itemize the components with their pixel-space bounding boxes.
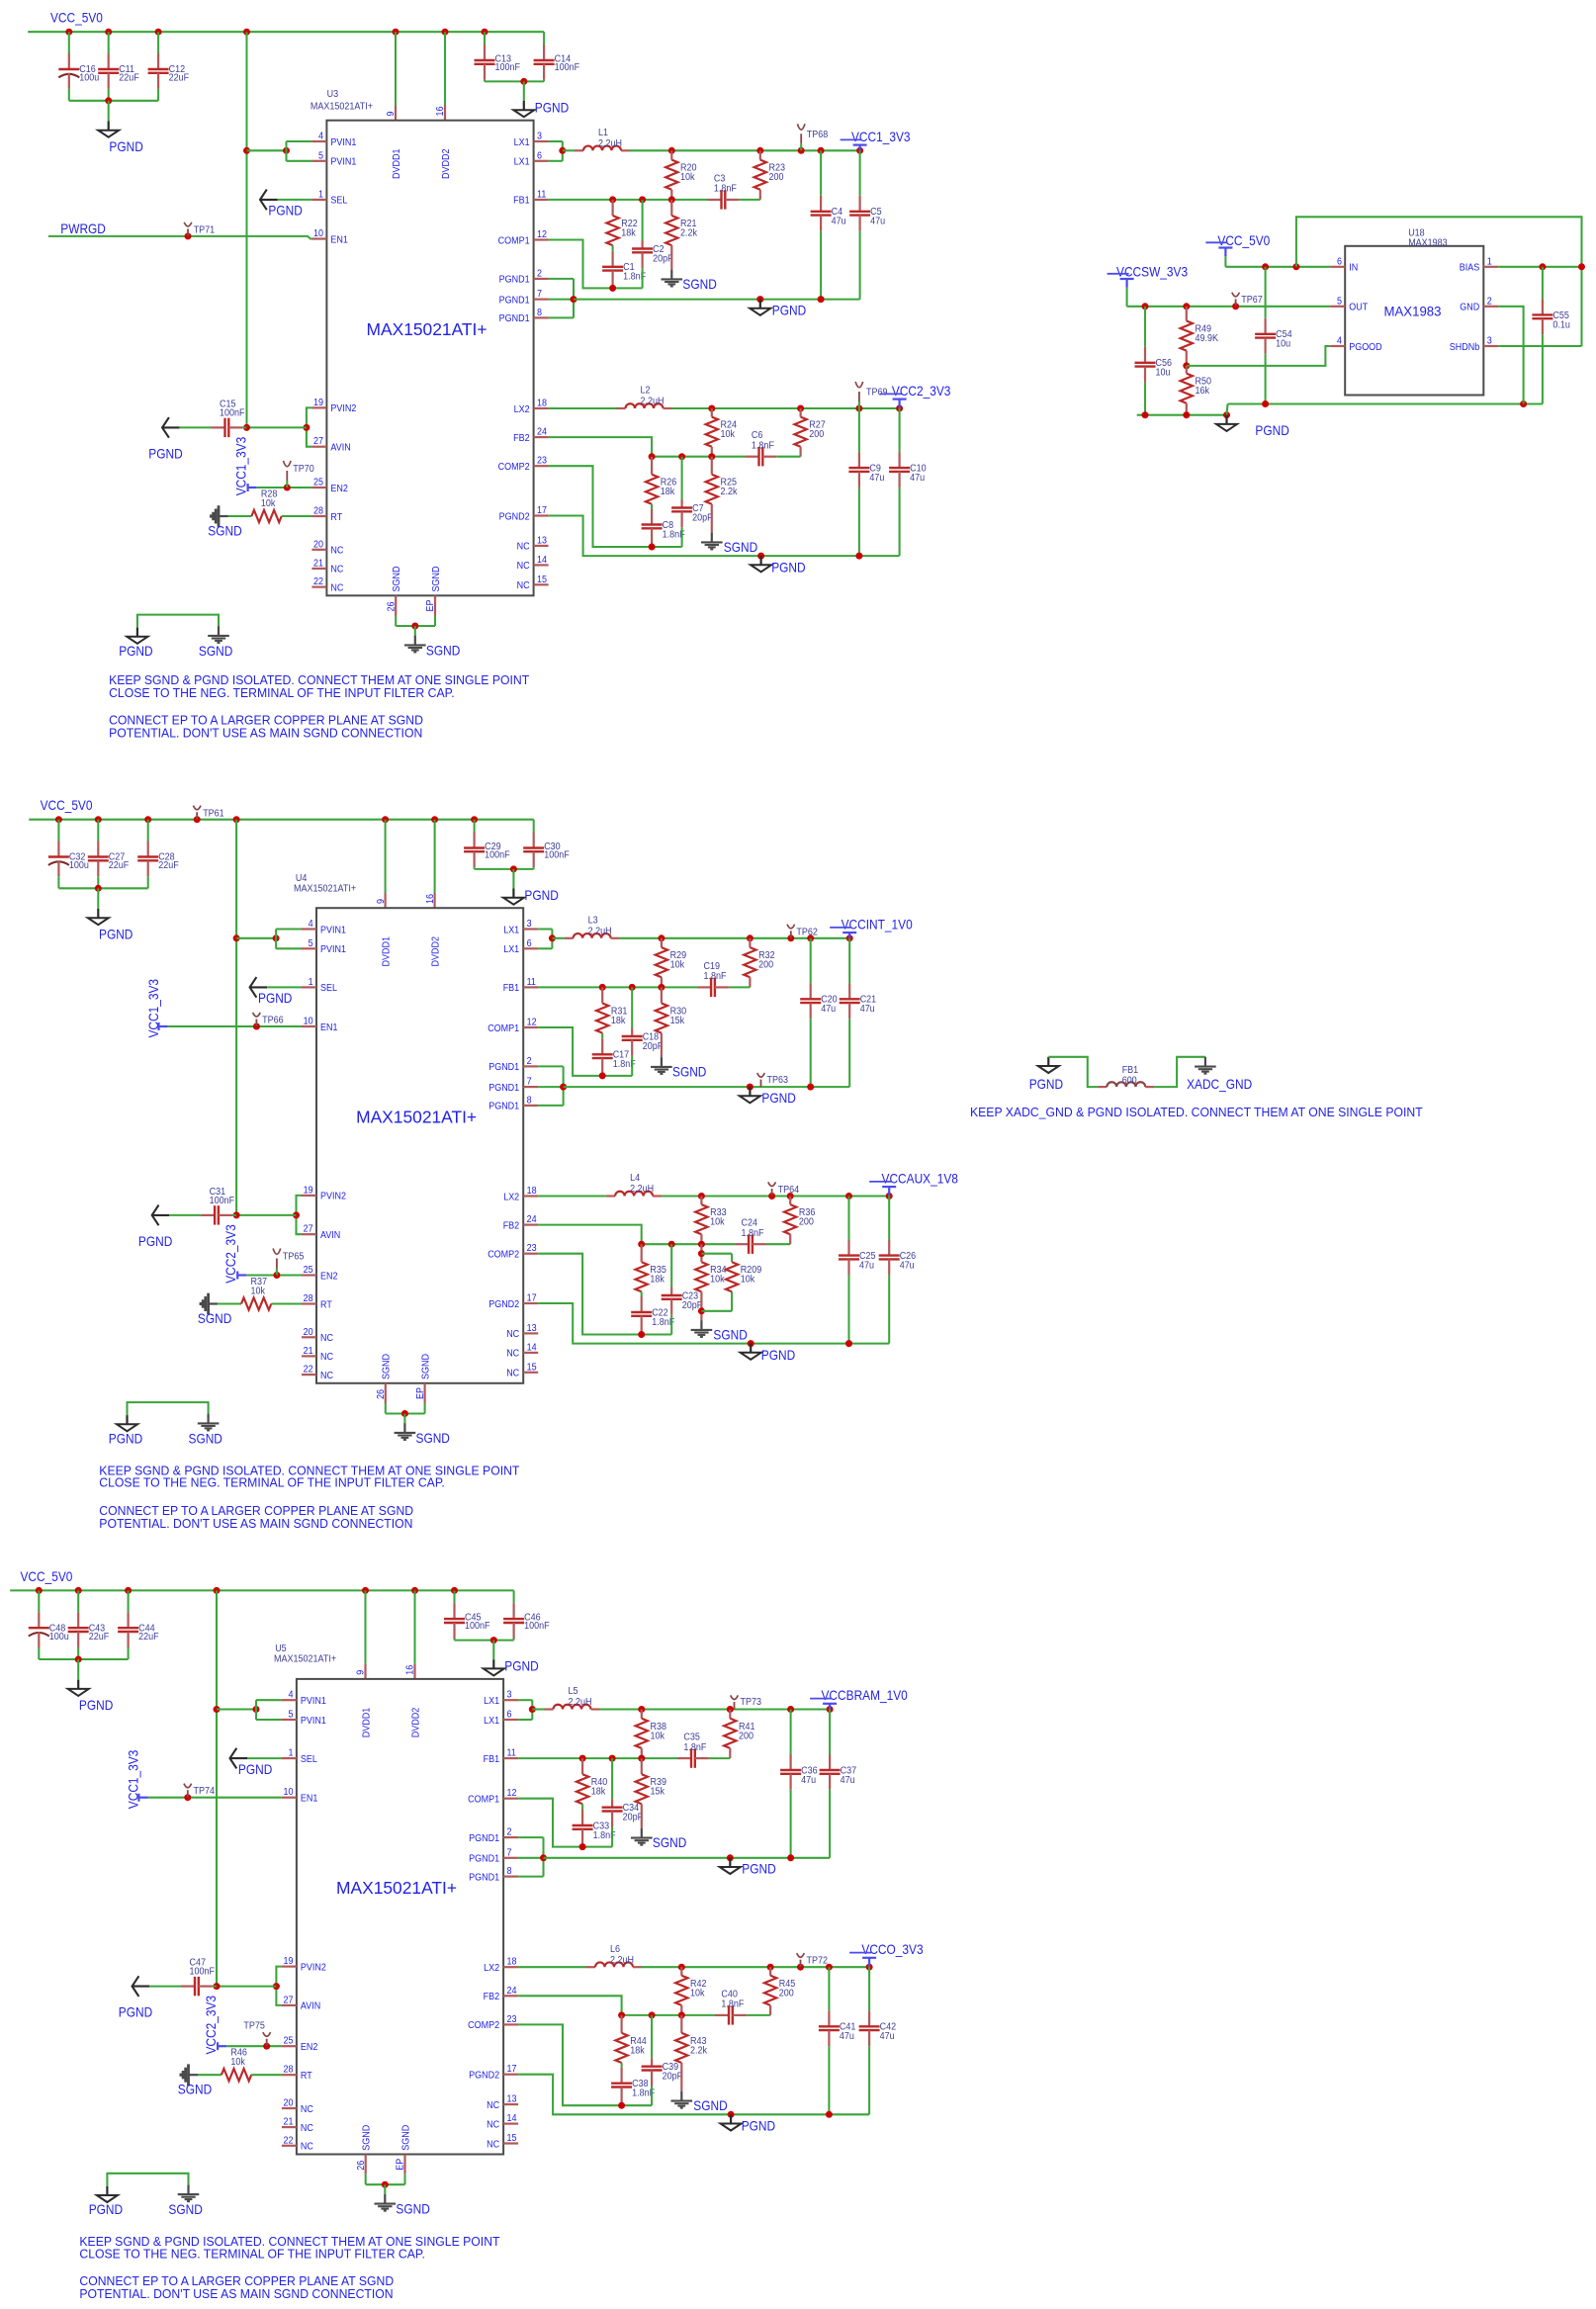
- svg-text:SGND: SGND: [682, 276, 716, 292]
- svg-text:SEL: SEL: [330, 196, 347, 207]
- svg-text:1.8nF: 1.8nF: [752, 441, 774, 452]
- svg-text:PGND: PGND: [268, 203, 302, 219]
- svg-text:16: 16: [435, 106, 446, 116]
- svg-text:NC: NC: [487, 2119, 499, 2130]
- svg-text:VCC2_3V3: VCC2_3V3: [892, 383, 951, 399]
- svg-text:20: 20: [304, 1327, 313, 1338]
- svg-text:20: 20: [284, 2098, 294, 2109]
- svg-text:SGND: SGND: [396, 2201, 429, 2217]
- svg-text:10k: 10k: [741, 1275, 755, 1286]
- svg-text:PGND: PGND: [742, 1861, 775, 1877]
- svg-text:L2: L2: [641, 386, 651, 397]
- svg-text:24: 24: [537, 427, 547, 438]
- svg-text:DVDD2: DVDD2: [430, 936, 441, 967]
- svg-text:20pF: 20pF: [643, 1041, 664, 1052]
- svg-text:1.8nF: 1.8nF: [714, 184, 737, 195]
- svg-text:VCC_5V0: VCC_5V0: [41, 797, 93, 813]
- svg-text:MAX15021ATI+: MAX15021ATI+: [274, 1653, 336, 1664]
- svg-text:25: 25: [313, 478, 323, 488]
- svg-text:SGND: SGND: [208, 523, 241, 539]
- svg-text:17: 17: [507, 2064, 517, 2075]
- svg-text:PGND: PGND: [79, 1697, 113, 1713]
- svg-text:PGND1: PGND1: [469, 1854, 499, 1865]
- svg-text:VCC2_3V3: VCC2_3V3: [203, 1996, 219, 2055]
- svg-text:PGND1: PGND1: [499, 275, 530, 286]
- svg-text:NC: NC: [320, 1371, 333, 1381]
- svg-text:LX2: LX2: [484, 1963, 499, 1974]
- svg-text:PGND: PGND: [238, 1761, 272, 1777]
- svg-text:16k: 16k: [1196, 386, 1210, 397]
- svg-text:POTENTIAL. DON'T USE AS MAIN S: POTENTIAL. DON'T USE AS MAIN SGND CONNEC…: [79, 2286, 393, 2301]
- svg-text:SGND: SGND: [400, 2125, 411, 2151]
- svg-text:14: 14: [537, 555, 547, 566]
- svg-text:SEL: SEL: [320, 983, 337, 994]
- svg-text:PGND: PGND: [742, 2118, 775, 2134]
- svg-text:1: 1: [309, 977, 313, 988]
- svg-text:FB2: FB2: [513, 433, 530, 444]
- svg-text:1: 1: [318, 189, 323, 200]
- svg-text:2: 2: [1487, 296, 1492, 307]
- svg-text:VCCINT_1V0: VCCINT_1V0: [842, 916, 913, 932]
- svg-text:LX1: LX1: [484, 1696, 499, 1707]
- svg-text:LX1: LX1: [503, 925, 519, 935]
- svg-text:LX1: LX1: [514, 137, 530, 148]
- svg-text:PGND1: PGND1: [488, 1062, 519, 1073]
- svg-text:100nF: 100nF: [190, 1967, 216, 1978]
- svg-text:SGND: SGND: [382, 1354, 393, 1379]
- svg-text:PVIN1: PVIN1: [330, 157, 356, 168]
- svg-text:BIAS: BIAS: [1460, 263, 1480, 274]
- svg-text:7: 7: [507, 1847, 512, 1858]
- svg-text:POTENTIAL. DON'T USE AS MAIN S: POTENTIAL. DON'T USE AS MAIN SGND CONNEC…: [99, 1516, 412, 1531]
- svg-text:21: 21: [284, 2117, 294, 2128]
- svg-text:15k: 15k: [670, 1016, 685, 1026]
- svg-text:2.2uH: 2.2uH: [598, 138, 622, 149]
- svg-text:PGND1: PGND1: [469, 1872, 499, 1883]
- svg-text:VCC1_3V3: VCC1_3V3: [232, 437, 248, 496]
- svg-text:10k: 10k: [690, 1988, 705, 1998]
- svg-text:AVIN: AVIN: [320, 1230, 340, 1241]
- svg-text:CLOSE TO THE NEG. TERMINAL OF: CLOSE TO THE NEG. TERMINAL OF THE INPUT …: [79, 2246, 425, 2261]
- svg-text:FB2: FB2: [484, 1992, 500, 2002]
- svg-text:FB2: FB2: [503, 1220, 520, 1231]
- svg-text:PGND: PGND: [535, 100, 569, 116]
- svg-text:NC: NC: [320, 1333, 333, 1344]
- svg-text:600: 600: [1122, 1076, 1137, 1087]
- svg-text:18: 18: [527, 1186, 537, 1197]
- svg-text:SGND: SGND: [431, 567, 442, 592]
- svg-text:VCCBRAM_1V0: VCCBRAM_1V0: [822, 1687, 908, 1703]
- svg-text:9: 9: [386, 111, 397, 116]
- svg-text:25: 25: [284, 2036, 294, 2047]
- svg-text:10k: 10k: [651, 1731, 665, 1741]
- svg-text:5: 5: [309, 938, 313, 949]
- svg-text:POTENTIAL. DON'T USE AS MAIN S: POTENTIAL. DON'T USE AS MAIN SGND CONNEC…: [109, 726, 422, 741]
- svg-text:EN2: EN2: [320, 1271, 338, 1282]
- svg-text:28: 28: [304, 1293, 313, 1304]
- svg-text:20pF: 20pF: [663, 2072, 683, 2083]
- svg-text:NC: NC: [330, 565, 343, 576]
- svg-text:NC: NC: [330, 546, 343, 557]
- svg-text:13: 13: [537, 535, 547, 546]
- svg-text:10k: 10k: [721, 429, 736, 440]
- svg-text:47u: 47u: [900, 1261, 915, 1272]
- svg-text:LX1: LX1: [503, 944, 519, 955]
- svg-text:4: 4: [289, 1690, 294, 1701]
- svg-text:SGND: SGND: [178, 2082, 212, 2097]
- svg-text:18k: 18k: [650, 1275, 665, 1286]
- svg-text:L1: L1: [598, 128, 608, 138]
- svg-text:200: 200: [809, 429, 824, 440]
- svg-text:19: 19: [304, 1185, 313, 1196]
- svg-text:U3: U3: [327, 89, 339, 100]
- svg-text:SGND: SGND: [416, 1430, 450, 1446]
- svg-text:EN1: EN1: [301, 1794, 318, 1805]
- svg-text:47u: 47u: [832, 217, 846, 227]
- svg-text:VCCSW_3V3: VCCSW_3V3: [1116, 263, 1188, 279]
- svg-text:TP75: TP75: [243, 2021, 265, 2032]
- svg-text:L5: L5: [569, 1686, 578, 1697]
- svg-text:FB1: FB1: [503, 983, 520, 994]
- svg-text:RT: RT: [330, 512, 342, 523]
- svg-text:4: 4: [318, 132, 323, 142]
- svg-text:COMP2: COMP2: [498, 462, 530, 473]
- svg-text:22: 22: [313, 577, 323, 587]
- svg-text:COMP1: COMP1: [498, 235, 530, 246]
- svg-text:PGND: PGND: [771, 560, 805, 576]
- svg-text:10u: 10u: [1156, 368, 1171, 379]
- svg-text:47u: 47u: [860, 1004, 875, 1015]
- svg-text:11: 11: [507, 1748, 517, 1759]
- svg-text:MAX1983: MAX1983: [1408, 237, 1448, 248]
- svg-text:10k: 10k: [261, 498, 276, 509]
- svg-text:2: 2: [537, 268, 542, 279]
- svg-text:PVIN1: PVIN1: [320, 925, 346, 935]
- svg-text:5: 5: [1337, 296, 1342, 307]
- svg-text:MAX15021ATI+: MAX15021ATI+: [310, 102, 373, 113]
- svg-text:6: 6: [507, 1710, 512, 1721]
- svg-text:NC: NC: [487, 2139, 499, 2150]
- svg-text:100u: 100u: [49, 1632, 69, 1643]
- svg-text:28: 28: [313, 506, 323, 517]
- svg-text:12: 12: [537, 229, 547, 240]
- svg-text:10: 10: [304, 1017, 313, 1027]
- svg-text:PGND: PGND: [138, 1233, 172, 1249]
- svg-text:47u: 47u: [910, 473, 925, 484]
- svg-text:VCC_5V0: VCC_5V0: [21, 1568, 73, 1584]
- svg-text:10: 10: [313, 228, 323, 239]
- svg-text:SGND: SGND: [724, 539, 757, 555]
- svg-text:10: 10: [284, 1787, 294, 1798]
- svg-text:MAX15021ATI+: MAX15021ATI+: [294, 883, 356, 894]
- svg-text:16: 16: [405, 1664, 416, 1674]
- svg-text:47u: 47u: [841, 1775, 855, 1786]
- svg-text:18k: 18k: [591, 1787, 606, 1798]
- svg-text:TP68: TP68: [807, 130, 829, 140]
- svg-text:TP63: TP63: [767, 1075, 789, 1086]
- svg-text:DVDD1: DVDD1: [361, 1707, 372, 1737]
- svg-text:COMP1: COMP1: [468, 1795, 499, 1806]
- svg-text:2.2uH: 2.2uH: [641, 397, 665, 407]
- svg-text:TP69: TP69: [866, 388, 888, 399]
- svg-text:24: 24: [527, 1214, 537, 1225]
- svg-text:DVDD2: DVDD2: [410, 1707, 421, 1737]
- svg-text:PWRGD: PWRGD: [60, 221, 106, 236]
- svg-text:OUT: OUT: [1349, 303, 1368, 313]
- svg-text:200: 200: [769, 172, 784, 183]
- svg-text:6: 6: [1337, 256, 1342, 267]
- svg-text:2.2k: 2.2k: [721, 487, 739, 497]
- svg-text:18: 18: [507, 1957, 517, 1968]
- svg-text:10k: 10k: [680, 172, 695, 183]
- svg-text:TP70: TP70: [293, 464, 314, 475]
- svg-text:2: 2: [527, 1056, 532, 1067]
- svg-text:19: 19: [284, 1956, 294, 1967]
- svg-text:DVDD1: DVDD1: [381, 936, 392, 967]
- svg-text:L4: L4: [630, 1173, 640, 1184]
- svg-text:16: 16: [425, 894, 436, 904]
- svg-text:1: 1: [1487, 256, 1492, 267]
- svg-text:AVIN: AVIN: [301, 2001, 320, 2012]
- svg-text:VCC_5V0: VCC_5V0: [1217, 232, 1270, 248]
- svg-text:26: 26: [376, 1389, 387, 1399]
- svg-text:10u: 10u: [1276, 339, 1290, 350]
- svg-text:FB1: FB1: [484, 1754, 500, 1765]
- svg-text:14: 14: [507, 2113, 517, 2124]
- svg-text:PGND: PGND: [761, 1347, 795, 1363]
- svg-text:COMP2: COMP2: [468, 2020, 499, 2031]
- svg-text:MAX15021ATI+: MAX15021ATI+: [367, 319, 488, 339]
- svg-text:5: 5: [289, 1710, 294, 1721]
- svg-text:12: 12: [527, 1018, 537, 1028]
- svg-text:EN2: EN2: [301, 2042, 318, 2053]
- svg-text:SGND: SGND: [189, 1431, 222, 1447]
- svg-text:17: 17: [537, 505, 547, 516]
- svg-text:6: 6: [527, 938, 532, 949]
- svg-text:27: 27: [304, 1224, 313, 1235]
- svg-text:L6: L6: [610, 1944, 620, 1955]
- svg-text:22uF: 22uF: [109, 860, 130, 871]
- svg-text:26: 26: [386, 601, 397, 611]
- svg-text:1.8nF: 1.8nF: [704, 971, 727, 982]
- svg-text:3: 3: [527, 919, 532, 930]
- svg-text:PGND: PGND: [119, 643, 152, 659]
- svg-text:XADC_GND: XADC_GND: [1187, 1076, 1252, 1092]
- svg-text:TP72: TP72: [807, 1956, 829, 1967]
- svg-text:8: 8: [507, 1866, 512, 1877]
- svg-text:3: 3: [1487, 336, 1492, 347]
- svg-text:PGND1: PGND1: [488, 1083, 519, 1094]
- svg-text:SGND: SGND: [426, 642, 460, 658]
- svg-text:EP: EP: [425, 599, 436, 611]
- svg-text:L3: L3: [588, 916, 598, 927]
- svg-text:8: 8: [527, 1095, 532, 1106]
- svg-text:SGND: SGND: [713, 1327, 747, 1343]
- svg-text:2.2uH: 2.2uH: [588, 927, 612, 937]
- svg-text:20: 20: [313, 539, 323, 550]
- svg-text:EP: EP: [396, 2158, 406, 2170]
- svg-text:SGND: SGND: [362, 2125, 373, 2151]
- svg-text:200: 200: [799, 1217, 814, 1228]
- svg-text:20pF: 20pF: [653, 253, 673, 264]
- svg-text:SGND: SGND: [420, 1354, 431, 1379]
- svg-text:22uF: 22uF: [169, 73, 190, 84]
- svg-text:13: 13: [527, 1323, 537, 1334]
- svg-text:18k: 18k: [621, 228, 636, 239]
- svg-text:CLOSE TO THE NEG. TERMINAL OF: CLOSE TO THE NEG. TERMINAL OF THE INPUT …: [109, 685, 455, 700]
- svg-text:6: 6: [537, 150, 542, 161]
- svg-text:23: 23: [537, 456, 547, 467]
- svg-text:NC: NC: [517, 561, 530, 572]
- svg-text:NC: NC: [506, 1329, 519, 1340]
- svg-text:PGND1: PGND1: [499, 295, 530, 306]
- svg-text:27: 27: [284, 1995, 294, 2005]
- svg-text:10k: 10k: [710, 1275, 725, 1286]
- svg-text:SHDNb: SHDNb: [1450, 342, 1480, 353]
- svg-text:FB1: FB1: [513, 196, 530, 207]
- svg-text:PGND: PGND: [1029, 1076, 1063, 1092]
- svg-text:RT: RT: [320, 1299, 332, 1310]
- svg-text:10k: 10k: [251, 1287, 266, 1297]
- svg-text:4: 4: [1337, 336, 1342, 347]
- svg-text:AVIN: AVIN: [330, 443, 350, 454]
- svg-text:2.2uH: 2.2uH: [630, 1184, 654, 1195]
- svg-text:RT: RT: [301, 2071, 312, 2082]
- svg-text:PGND: PGND: [109, 138, 142, 154]
- svg-text:22: 22: [284, 2135, 294, 2146]
- svg-text:7: 7: [537, 289, 542, 300]
- svg-text:TP62: TP62: [796, 928, 818, 938]
- svg-text:TP74: TP74: [194, 1786, 216, 1797]
- svg-text:COMP2: COMP2: [488, 1250, 519, 1261]
- svg-text:PGND1: PGND1: [499, 313, 530, 324]
- svg-text:1.8nF: 1.8nF: [742, 1228, 764, 1239]
- svg-text:9: 9: [356, 1669, 367, 1674]
- svg-text:VCCAUX_1V8: VCCAUX_1V8: [882, 1170, 959, 1186]
- svg-text:TP71: TP71: [194, 225, 216, 236]
- svg-text:10k: 10k: [670, 960, 685, 971]
- svg-text:200: 200: [779, 1988, 794, 1998]
- svg-text:MAX15021ATI+: MAX15021ATI+: [336, 1878, 457, 1898]
- svg-text:PGOOD: PGOOD: [1349, 342, 1382, 353]
- svg-text:VCC2_3V3: VCC2_3V3: [222, 1224, 238, 1284]
- svg-text:PGND1: PGND1: [469, 1833, 499, 1844]
- svg-text:EN1: EN1: [320, 1022, 338, 1033]
- svg-text:100nF: 100nF: [220, 408, 245, 419]
- svg-text:PGND: PGND: [109, 1431, 142, 1447]
- svg-text:100nF: 100nF: [544, 849, 570, 860]
- svg-text:SGND: SGND: [199, 643, 232, 659]
- svg-text:23: 23: [527, 1243, 537, 1254]
- svg-text:EN1: EN1: [330, 234, 348, 245]
- svg-text:10k: 10k: [710, 1217, 725, 1228]
- svg-text:27: 27: [313, 436, 323, 447]
- svg-text:7: 7: [527, 1077, 532, 1088]
- svg-text:IN: IN: [1349, 263, 1358, 274]
- svg-text:47u: 47u: [801, 1775, 816, 1786]
- svg-text:3: 3: [537, 132, 542, 142]
- svg-text:23: 23: [507, 2014, 517, 2025]
- svg-text:22: 22: [304, 1365, 313, 1376]
- svg-text:SGND: SGND: [672, 1064, 706, 1080]
- svg-text:TP65: TP65: [283, 1252, 305, 1263]
- svg-text:NC: NC: [506, 1369, 519, 1379]
- svg-text:KEEP XADC_GND & PGND ISOLATED.: KEEP XADC_GND & PGND ISOLATED. CONNECT T…: [970, 1105, 1423, 1119]
- svg-text:100u: 100u: [69, 860, 89, 871]
- svg-text:4: 4: [309, 919, 313, 930]
- svg-text:47u: 47u: [840, 2031, 854, 2042]
- svg-text:2.2uH: 2.2uH: [610, 1955, 634, 1966]
- svg-text:15: 15: [507, 2133, 517, 2144]
- svg-text:NC: NC: [517, 580, 530, 591]
- svg-text:PVIN2: PVIN2: [320, 1192, 346, 1202]
- svg-text:200: 200: [739, 1731, 754, 1741]
- svg-text:MAX1983: MAX1983: [1384, 305, 1442, 319]
- svg-text:49.9K: 49.9K: [1196, 333, 1219, 344]
- svg-text:LX2: LX2: [503, 1192, 519, 1202]
- svg-text:NC: NC: [301, 2104, 313, 2115]
- svg-text:NC: NC: [506, 1349, 519, 1360]
- svg-text:TP61: TP61: [203, 809, 224, 820]
- svg-text:17: 17: [527, 1293, 537, 1304]
- svg-text:SEL: SEL: [301, 1754, 317, 1765]
- svg-text:SGND: SGND: [653, 1834, 686, 1850]
- svg-text:18k: 18k: [611, 1016, 626, 1026]
- svg-text:SGND: SGND: [693, 2097, 727, 2113]
- svg-text:PVIN1: PVIN1: [301, 1696, 326, 1707]
- svg-text:100nF: 100nF: [555, 62, 580, 73]
- svg-text:TP73: TP73: [741, 1697, 762, 1708]
- svg-text:TP66: TP66: [262, 1016, 284, 1026]
- svg-text:15k: 15k: [651, 1787, 665, 1798]
- svg-text:PGND2: PGND2: [469, 2071, 499, 2082]
- svg-text:100u: 100u: [79, 73, 99, 84]
- svg-text:EP: EP: [415, 1387, 426, 1399]
- svg-text:22uF: 22uF: [119, 73, 139, 84]
- svg-text:PGND2: PGND2: [488, 1299, 519, 1310]
- svg-text:15: 15: [537, 575, 547, 585]
- svg-text:PGND: PGND: [524, 887, 558, 903]
- svg-text:TP67: TP67: [1241, 295, 1263, 306]
- svg-text:22uF: 22uF: [138, 1632, 159, 1643]
- svg-text:SGND: SGND: [392, 567, 402, 592]
- svg-text:DVDD2: DVDD2: [441, 148, 452, 179]
- svg-text:25: 25: [304, 1265, 313, 1276]
- svg-text:PGND: PGND: [89, 2201, 123, 2217]
- svg-text:100nF: 100nF: [485, 849, 509, 860]
- svg-text:18k: 18k: [661, 487, 675, 497]
- svg-text:47u: 47u: [870, 217, 885, 227]
- svg-text:NC: NC: [517, 542, 530, 553]
- svg-text:22uF: 22uF: [89, 1632, 110, 1643]
- svg-text:28: 28: [284, 2065, 294, 2076]
- svg-text:10k: 10k: [230, 2057, 245, 2068]
- svg-text:PVIN1: PVIN1: [301, 1716, 326, 1727]
- svg-text:2.2uH: 2.2uH: [569, 1697, 592, 1708]
- svg-text:21: 21: [304, 1346, 313, 1357]
- svg-text:13: 13: [507, 2094, 517, 2105]
- svg-text:FB1: FB1: [1122, 1065, 1139, 1076]
- svg-text:PVIN1: PVIN1: [330, 137, 356, 148]
- svg-text:CLOSE TO THE NEG. TERMINAL OF: CLOSE TO THE NEG. TERMINAL OF THE INPUT …: [99, 1475, 445, 1490]
- svg-text:PGND: PGND: [119, 2004, 152, 2020]
- svg-text:14: 14: [527, 1342, 537, 1353]
- svg-text:EN2: EN2: [330, 484, 348, 494]
- svg-text:PGND: PGND: [148, 446, 182, 462]
- svg-text:200: 200: [758, 960, 773, 971]
- svg-text:24: 24: [507, 1986, 517, 1997]
- svg-text:VCC_5V0: VCC_5V0: [50, 10, 103, 26]
